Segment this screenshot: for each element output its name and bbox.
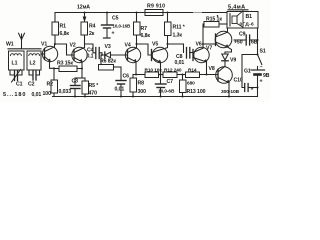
- svg-text:+: +: [112, 31, 115, 37]
- svg-text:S1: S1: [260, 49, 266, 55]
- svg-text:G1: G1: [244, 69, 251, 75]
- wire R6 from diode node down: [100, 55, 102, 65]
- resistor R14: [186, 72, 200, 78]
- svg-text:V9: V9: [230, 58, 236, 64]
- svg-text:5,4мА: 5,4мА: [228, 5, 245, 11]
- resistor R5: [84, 78, 86, 81]
- svg-text:100: 100: [43, 91, 52, 97]
- capacitor C9: [234, 39, 246, 41]
- svg-text:R6 82к: R6 82к: [100, 59, 116, 65]
- svg-text:0,033: 0,033: [59, 89, 72, 95]
- antenna W1: [21, 34, 23, 49]
- svg-text:6,8к: 6,8к: [60, 31, 70, 37]
- rail fade artifact: [193, 12, 202, 14]
- svg-text:R3 15к: R3 15к: [57, 61, 73, 67]
- svg-text:L2: L2: [30, 61, 36, 67]
- capacitor C5: [106, 13, 108, 25]
- resistor R9: [145, 10, 163, 16]
- svg-text:300-10В: 300-10В: [221, 89, 240, 95]
- svg-text:0ГД-6: 0ГД-6: [240, 22, 254, 28]
- svg-text:+50: +50: [234, 40, 243, 46]
- svg-text:10,0-6В: 10,0-6В: [158, 89, 175, 95]
- svg-text:9В: 9В: [263, 73, 270, 79]
- right rail from box down: [257, 28, 259, 54]
- diode V3: [105, 52, 111, 58]
- svg-text:+: +: [251, 87, 254, 93]
- svg-text:W1: W1: [6, 42, 14, 48]
- svg-text:V1: V1: [41, 42, 47, 48]
- svg-text:R15 1к: R15 1к: [206, 17, 222, 23]
- wire left corner down from rail to R1: [54, 13, 56, 23]
- svg-text:R11 *: R11 *: [173, 25, 186, 31]
- svg-text:C2: C2: [28, 82, 35, 88]
- magnetic antenna rod: [8, 48, 41, 50]
- svg-text:V6: V6: [196, 42, 202, 48]
- transistor V9: [216, 67, 233, 84]
- svg-text:V8: V8: [209, 66, 215, 72]
- svg-text:R8: R8: [138, 81, 145, 87]
- transistor V6: [194, 47, 209, 62]
- junction dots: [217, 15, 219, 17]
- svg-text:R9 910: R9 910: [147, 4, 165, 10]
- svg-text:1,3к: 1,3к: [173, 33, 183, 39]
- svg-text:6В: 6В: [251, 40, 258, 46]
- wire V1 collector to V2 base: [55, 44, 74, 55]
- svg-text:10,0-16В: 10,0-16В: [113, 24, 132, 29]
- transistor V5: [152, 47, 167, 62]
- svg-text:0,01: 0,01: [115, 87, 125, 93]
- svg-text:C6: C6: [123, 74, 130, 80]
- resistor R8: [133, 75, 136, 79]
- svg-text:12мА: 12мА: [77, 5, 90, 11]
- 5.4mA current wire: [228, 9, 248, 11]
- svg-text:+: +: [260, 79, 263, 85]
- resistor R11: [167, 13, 169, 23]
- svg-text:C9: C9: [239, 32, 246, 38]
- bottom ground rail: [53, 96, 258, 98]
- svg-text:R10 10к: R10 10к: [145, 68, 163, 74]
- svg-text:0,01: 0,01: [32, 92, 42, 98]
- top supply rail: [55, 12, 227, 14]
- capacitor C2: [29, 70, 32, 75]
- svg-text:R12 240: R12 240: [164, 68, 182, 74]
- capacitor C4: [85, 44, 96, 53]
- transistor V1: [42, 46, 57, 61]
- wire emitter split to C3 and R5: [75, 77, 85, 79]
- svg-text:V7: V7: [206, 46, 212, 52]
- coil L1 box: [9, 51, 25, 70]
- resistor R7: [136, 13, 138, 23]
- capacitor C3: [74, 78, 76, 85]
- resistor R15: [202, 24, 204, 48]
- svg-text:R4: R4: [89, 24, 96, 30]
- resistor R4: [81, 22, 88, 35]
- capacitor C7: [160, 75, 162, 84]
- svg-text:C7: C7: [167, 79, 174, 85]
- wire V5 collector to C8: [168, 44, 184, 53]
- svg-text:R14: R14: [188, 68, 197, 74]
- svg-text:C10: C10: [234, 77, 243, 83]
- current label 12mA arrow: [84, 13, 86, 18]
- bottom chain wire: [136, 74, 145, 76]
- battery G1: [251, 69, 265, 71]
- svg-text:V5: V5: [152, 42, 158, 48]
- resistor R12: [163, 72, 177, 78]
- svg-text:C5: C5: [112, 16, 119, 22]
- resistor R10: [145, 72, 159, 78]
- variable capacitor C1: [10, 70, 14, 75]
- svg-text:L1: L1: [12, 61, 18, 67]
- svg-text:0,1: 0,1: [87, 54, 94, 60]
- coil L2 box: [27, 51, 41, 70]
- svg-text:R13 100: R13 100: [187, 89, 206, 95]
- svg-text:470: 470: [89, 91, 98, 97]
- svg-text:0,01: 0,01: [175, 60, 185, 66]
- output transformer + speaker box B1: [227, 12, 258, 29]
- diode V8: [222, 54, 228, 60]
- switch S1: [258, 55, 262, 65]
- svg-text:300: 300: [138, 89, 147, 95]
- resistor R1: [52, 22, 59, 35]
- resistor R3: [54, 68, 59, 70]
- svg-text:R2: R2: [47, 82, 54, 88]
- svg-text:V2: V2: [70, 43, 76, 49]
- svg-text:5...180: 5...180: [3, 92, 26, 98]
- resistor R13: [182, 75, 184, 81]
- svg-text:2к: 2к: [89, 31, 95, 37]
- svg-text:C1: C1: [16, 82, 23, 88]
- wire V4 collector coupling to V5 base: [137, 44, 152, 55]
- svg-text:−: −: [260, 65, 263, 71]
- svg-text:6,8к: 6,8к: [141, 33, 151, 39]
- svg-text:R5 *: R5 *: [89, 83, 100, 89]
- wire midpoint to C10: [242, 55, 258, 88]
- capacitor C10: [244, 84, 246, 92]
- wire V7 base: [203, 43, 216, 45]
- wire L2 to V1 base: [41, 53, 45, 55]
- svg-text:В1: В1: [246, 14, 253, 20]
- svg-text:V4: V4: [125, 43, 131, 49]
- capacitor C8: [186, 48, 188, 59]
- transistor V4: [125, 47, 140, 62]
- resistor R2: [51, 80, 58, 93]
- transistor V7: [215, 31, 232, 48]
- svg-text:R7: R7: [141, 26, 148, 32]
- capacitor C6: [120, 67, 122, 80]
- wire node V1 emitter junction: [53, 68, 55, 80]
- transistor V2: [72, 47, 87, 62]
- svg-text:R1: R1: [60, 24, 67, 30]
- svg-text:V3: V3: [105, 44, 111, 50]
- resistor R6: [99, 65, 114, 71]
- svg-text:C3: C3: [72, 79, 79, 85]
- svg-text:680: 680: [187, 81, 195, 87]
